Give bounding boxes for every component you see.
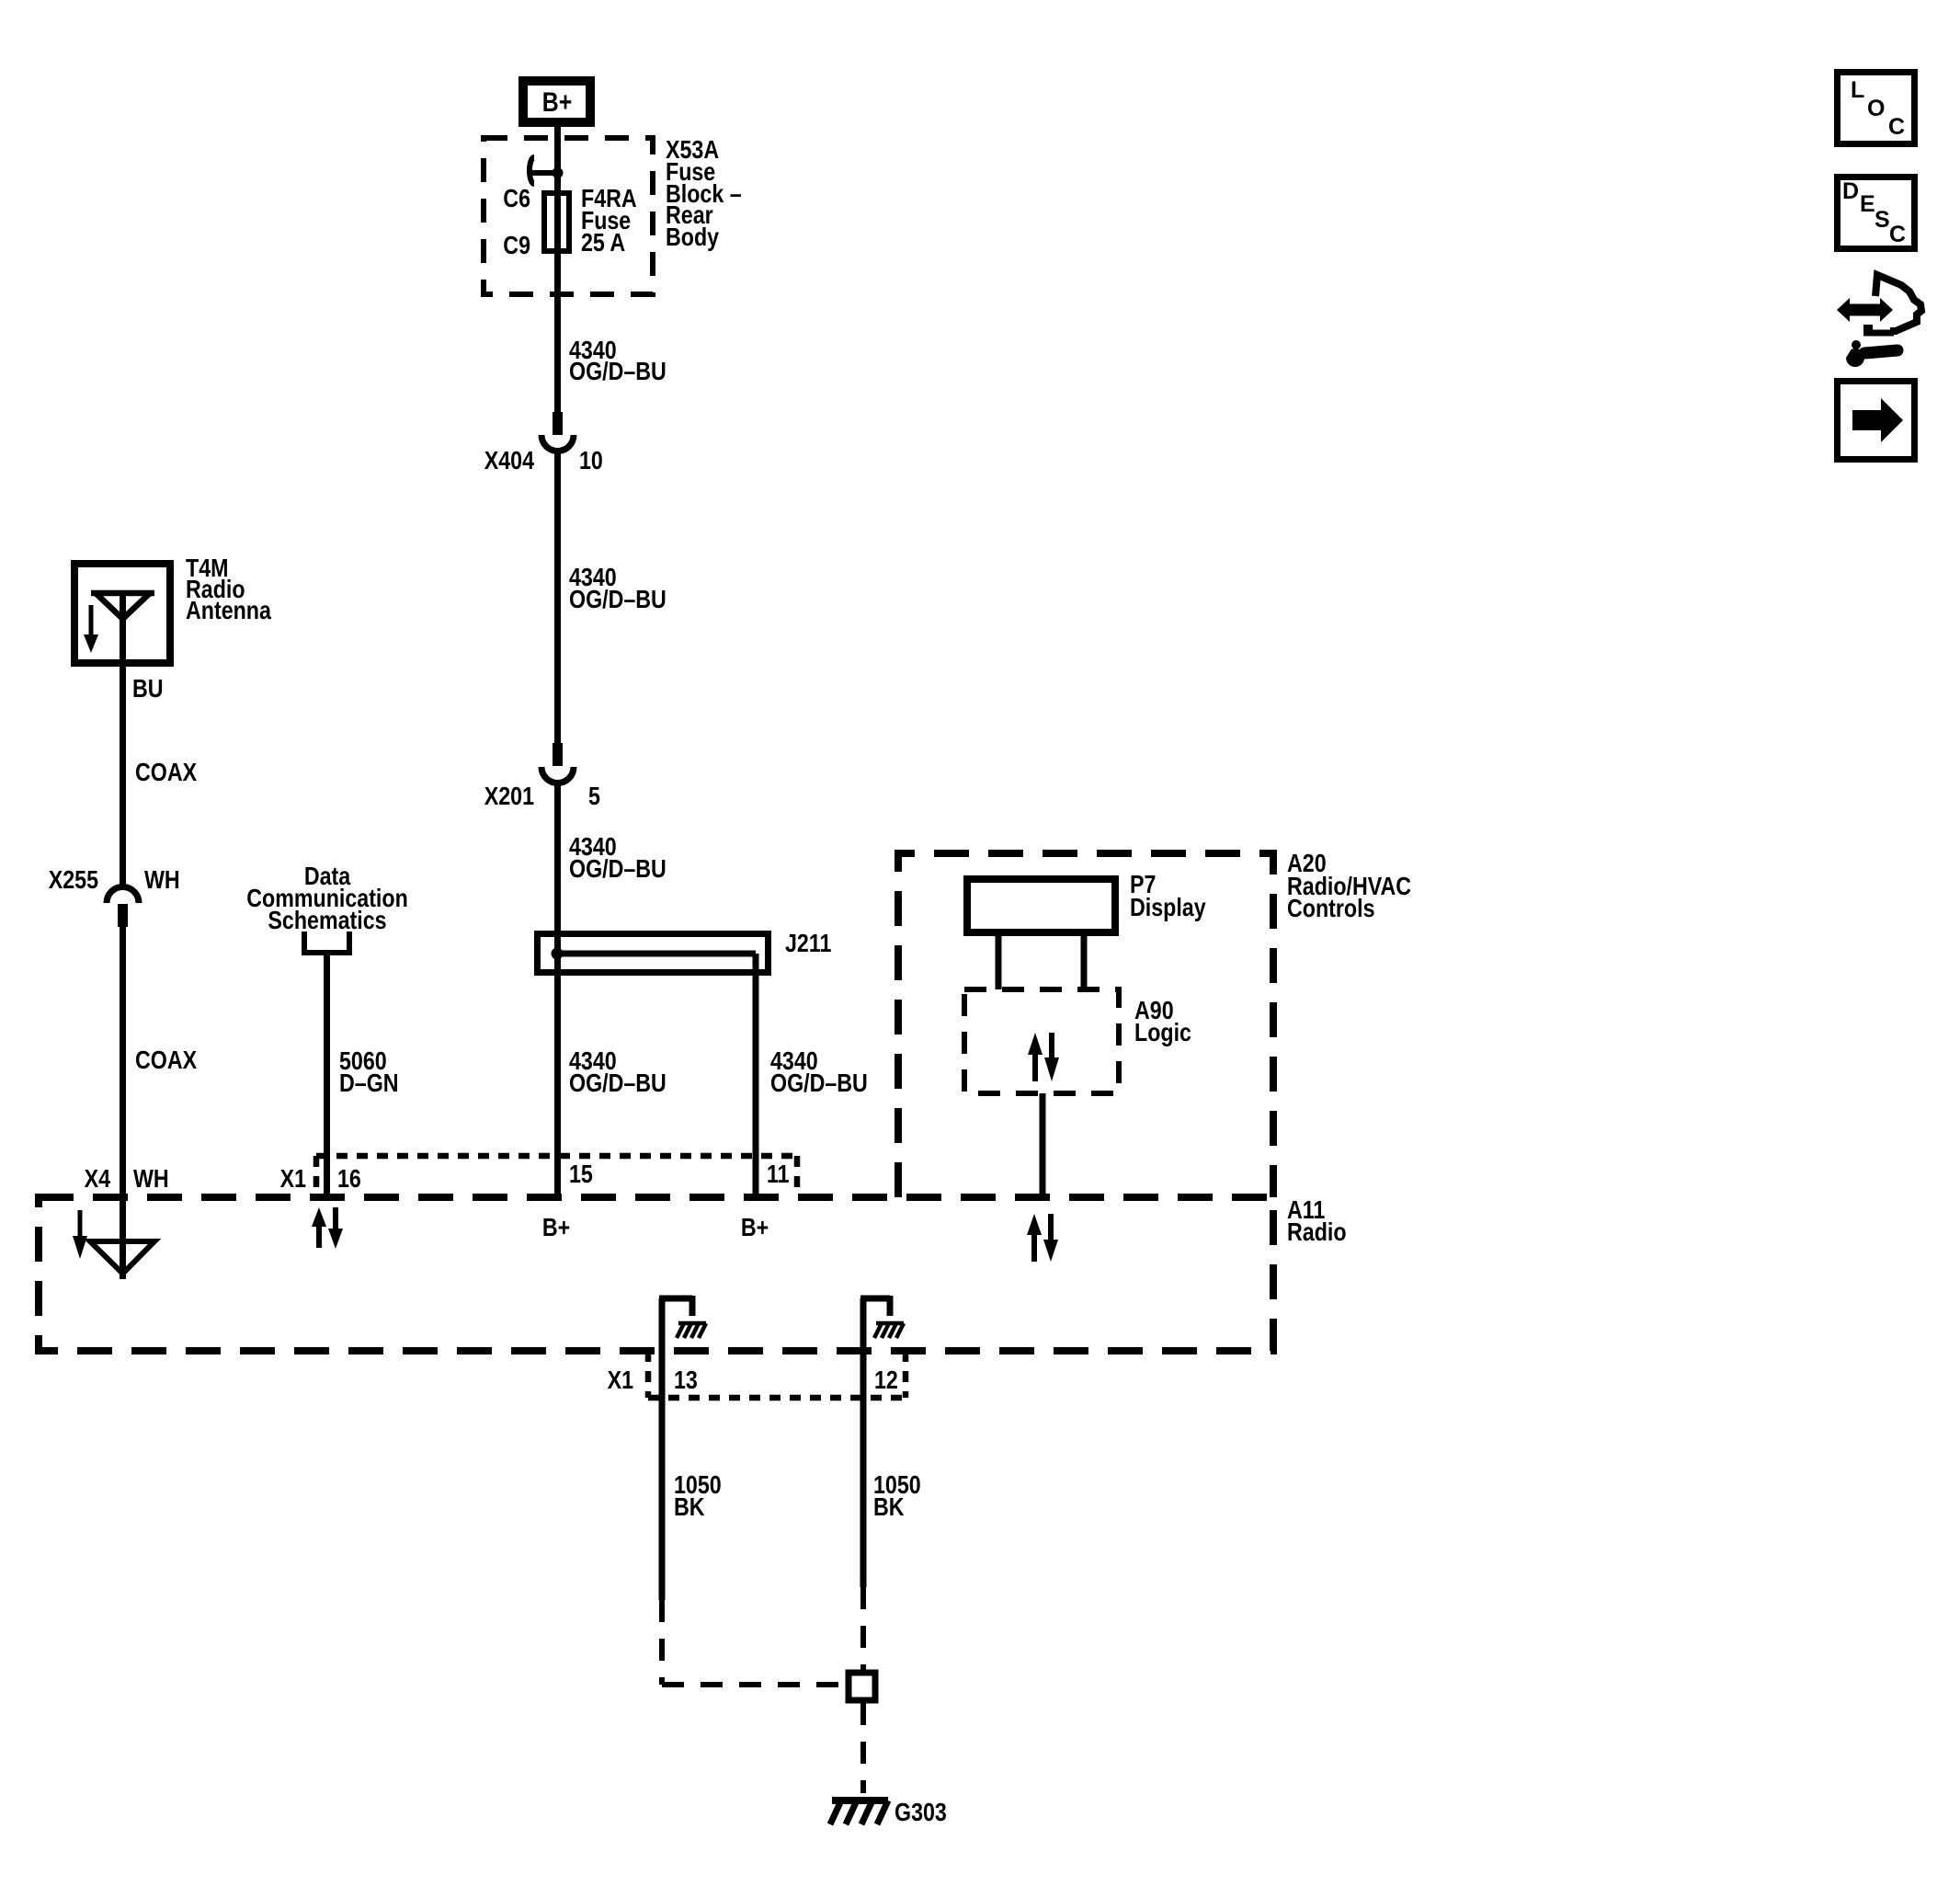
svg-text:C: C [1889, 222, 1906, 247]
wire label 4340 OG/D-BU [569, 564, 667, 613]
wire label 1050 BK left [674, 1471, 722, 1521]
antenna T4M box [74, 564, 170, 663]
up/down arrows below radio line [1027, 1214, 1058, 1262]
svg-text:WH: WH [133, 1165, 169, 1193]
forward arrow icon box [1838, 382, 1915, 460]
svg-text:J211: J211 [785, 930, 831, 957]
svg-text:OG/D–BU: OG/D–BU [569, 586, 667, 613]
svg-text:X1: X1 [608, 1366, 633, 1394]
ground G303 [830, 1800, 888, 1824]
fuse clip hook C6 [530, 157, 534, 184]
connector X255 [107, 887, 139, 928]
up/down arrows in A90 [1028, 1033, 1059, 1081]
wire label 5060 D-GN [339, 1047, 399, 1097]
svg-text:13: 13 [674, 1366, 698, 1394]
svg-text:X255: X255 [49, 866, 98, 894]
A90 Logic dashed box [964, 989, 1119, 1093]
antenna symbol [91, 593, 154, 667]
junction node [553, 167, 564, 178]
svg-text:Radio: Radio [1287, 1218, 1347, 1246]
wire pin 12 [860, 1298, 867, 1587]
up/down arrows at pin 16 [312, 1207, 343, 1249]
svg-text:OG/D–BU: OG/D–BU [569, 1069, 667, 1097]
connector X404 pin 10 [541, 412, 574, 451]
svg-text:COAX: COAX [135, 759, 197, 786]
svg-text:OG/D–BU: OG/D–BU [569, 855, 667, 883]
B+ power symbol [523, 81, 590, 122]
fuse F4RA [544, 193, 569, 251]
ground wire 13 bend and chassis ground [659, 1296, 706, 1338]
P7 legs [996, 936, 1002, 989]
svg-text:E: E [1860, 191, 1875, 217]
svg-text:O: O [1867, 96, 1885, 121]
svg-text:D: D [1842, 178, 1859, 204]
dashed wire splice to G303 [860, 1703, 866, 1793]
diagnostic icon double arrow [1837, 298, 1893, 322]
wire label 4340 OG/D-BU [569, 337, 667, 385]
splice pack J211 [538, 934, 769, 973]
svg-text:G303: G303 [895, 1799, 947, 1826]
wire label 4340 OG/D-BU [569, 833, 667, 883]
svg-text:B+: B+ [741, 1214, 769, 1241]
wire label 4340 OG/D-BU [770, 1047, 868, 1097]
dashed wire pin13 lower [659, 1600, 665, 1685]
ground wire 12 bend and chassis ground [860, 1296, 904, 1338]
wire pin 13 [659, 1298, 666, 1600]
svg-text:15: 15 [569, 1160, 593, 1188]
P7 Display box [967, 879, 1115, 932]
wire antenna to X255 [120, 667, 126, 888]
antenna ground triangle [90, 1241, 154, 1274]
svg-text:10: 10 [579, 447, 603, 474]
splice box [849, 1673, 875, 1700]
wire X404 to X201 [554, 450, 561, 745]
svg-text:B+: B+ [542, 86, 573, 118]
svg-text:Schematics: Schematics [268, 907, 386, 934]
svg-text:Logic: Logic [1134, 1019, 1191, 1046]
dashed wire pin12 lower [860, 1587, 866, 1670]
svg-text:OG/D–BU: OG/D–BU [569, 358, 667, 385]
wire A90 to radio [1040, 1093, 1046, 1197]
svg-text:BK: BK [873, 1493, 905, 1521]
label X53A Fuse Block - Rear Body [666, 136, 742, 251]
svg-text:BK: BK [674, 1493, 705, 1521]
off-page bracket [304, 932, 349, 953]
svg-text:X4: X4 [85, 1165, 111, 1193]
X1 connector notch pins 16/15/11 [316, 1156, 797, 1195]
wire J211 to radio pin 15 [554, 954, 561, 1197]
svg-text:Antenna: Antenna [186, 597, 272, 624]
diagnostic icon wrench [1837, 340, 1897, 367]
A20 Radio/HVAC Controls dashed box [898, 853, 1273, 1197]
svg-text:WH: WH [144, 866, 180, 894]
DESC icon box [1838, 177, 1915, 249]
wire X255 to radio [120, 927, 126, 1279]
wire X201 to J211 [554, 782, 561, 954]
svg-text:12: 12 [874, 1366, 898, 1394]
svg-text:C: C [1888, 114, 1905, 140]
svg-text:OG/D–BU: OG/D–BU [770, 1069, 868, 1097]
X1 connector notch pins 13/12 [648, 1351, 906, 1398]
fuse block X53A dashed box [484, 138, 653, 294]
svg-text:16: 16 [337, 1165, 361, 1193]
svg-text:Controls: Controls [1287, 895, 1375, 922]
svg-text:Body: Body [666, 223, 720, 251]
wire data comm to radio pin 16 [324, 953, 330, 1197]
wire label 1050 BK right [873, 1471, 921, 1521]
svg-text:D–GN: D–GN [339, 1069, 399, 1097]
LOC icon box [1838, 73, 1915, 144]
svg-text:X201: X201 [484, 783, 534, 810]
wire B+ to fuse block [554, 127, 561, 193]
down arrow inside radio at X4 [73, 1210, 87, 1259]
svg-text:L: L [1851, 77, 1864, 103]
svg-text:25 A: 25 A [581, 229, 625, 257]
svg-text:B+: B+ [542, 1214, 570, 1241]
svg-text:COAX: COAX [135, 1046, 197, 1074]
svg-text:S: S [1875, 207, 1890, 233]
svg-text:11: 11 [767, 1160, 790, 1188]
wire fuse to X404 [554, 254, 561, 414]
svg-text:X404: X404 [484, 447, 535, 474]
label T4M Radio Antenna [186, 554, 272, 624]
label Data Communication Schematics [246, 863, 408, 934]
connector X201 pin 5 [541, 743, 574, 783]
dashed wire horizontal to splice [662, 1682, 846, 1687]
fuse value label F4RA Fuse 25 A [581, 185, 637, 257]
diagnostic icon connector outline [1875, 275, 1921, 331]
down arrow in antenna box [84, 605, 98, 653]
wire label 4340 OG/D-BU [569, 1047, 667, 1097]
svg-text:C9: C9 [503, 232, 530, 259]
svg-text:Display: Display [1130, 894, 1206, 921]
svg-text:BU: BU [132, 675, 164, 703]
wire J211 to radio pin 11 [753, 954, 759, 1197]
A11 Radio dashed box [39, 1197, 1273, 1351]
svg-text:C6: C6 [503, 185, 530, 212]
svg-text:X1: X1 [280, 1165, 306, 1193]
svg-text:5: 5 [588, 783, 600, 810]
